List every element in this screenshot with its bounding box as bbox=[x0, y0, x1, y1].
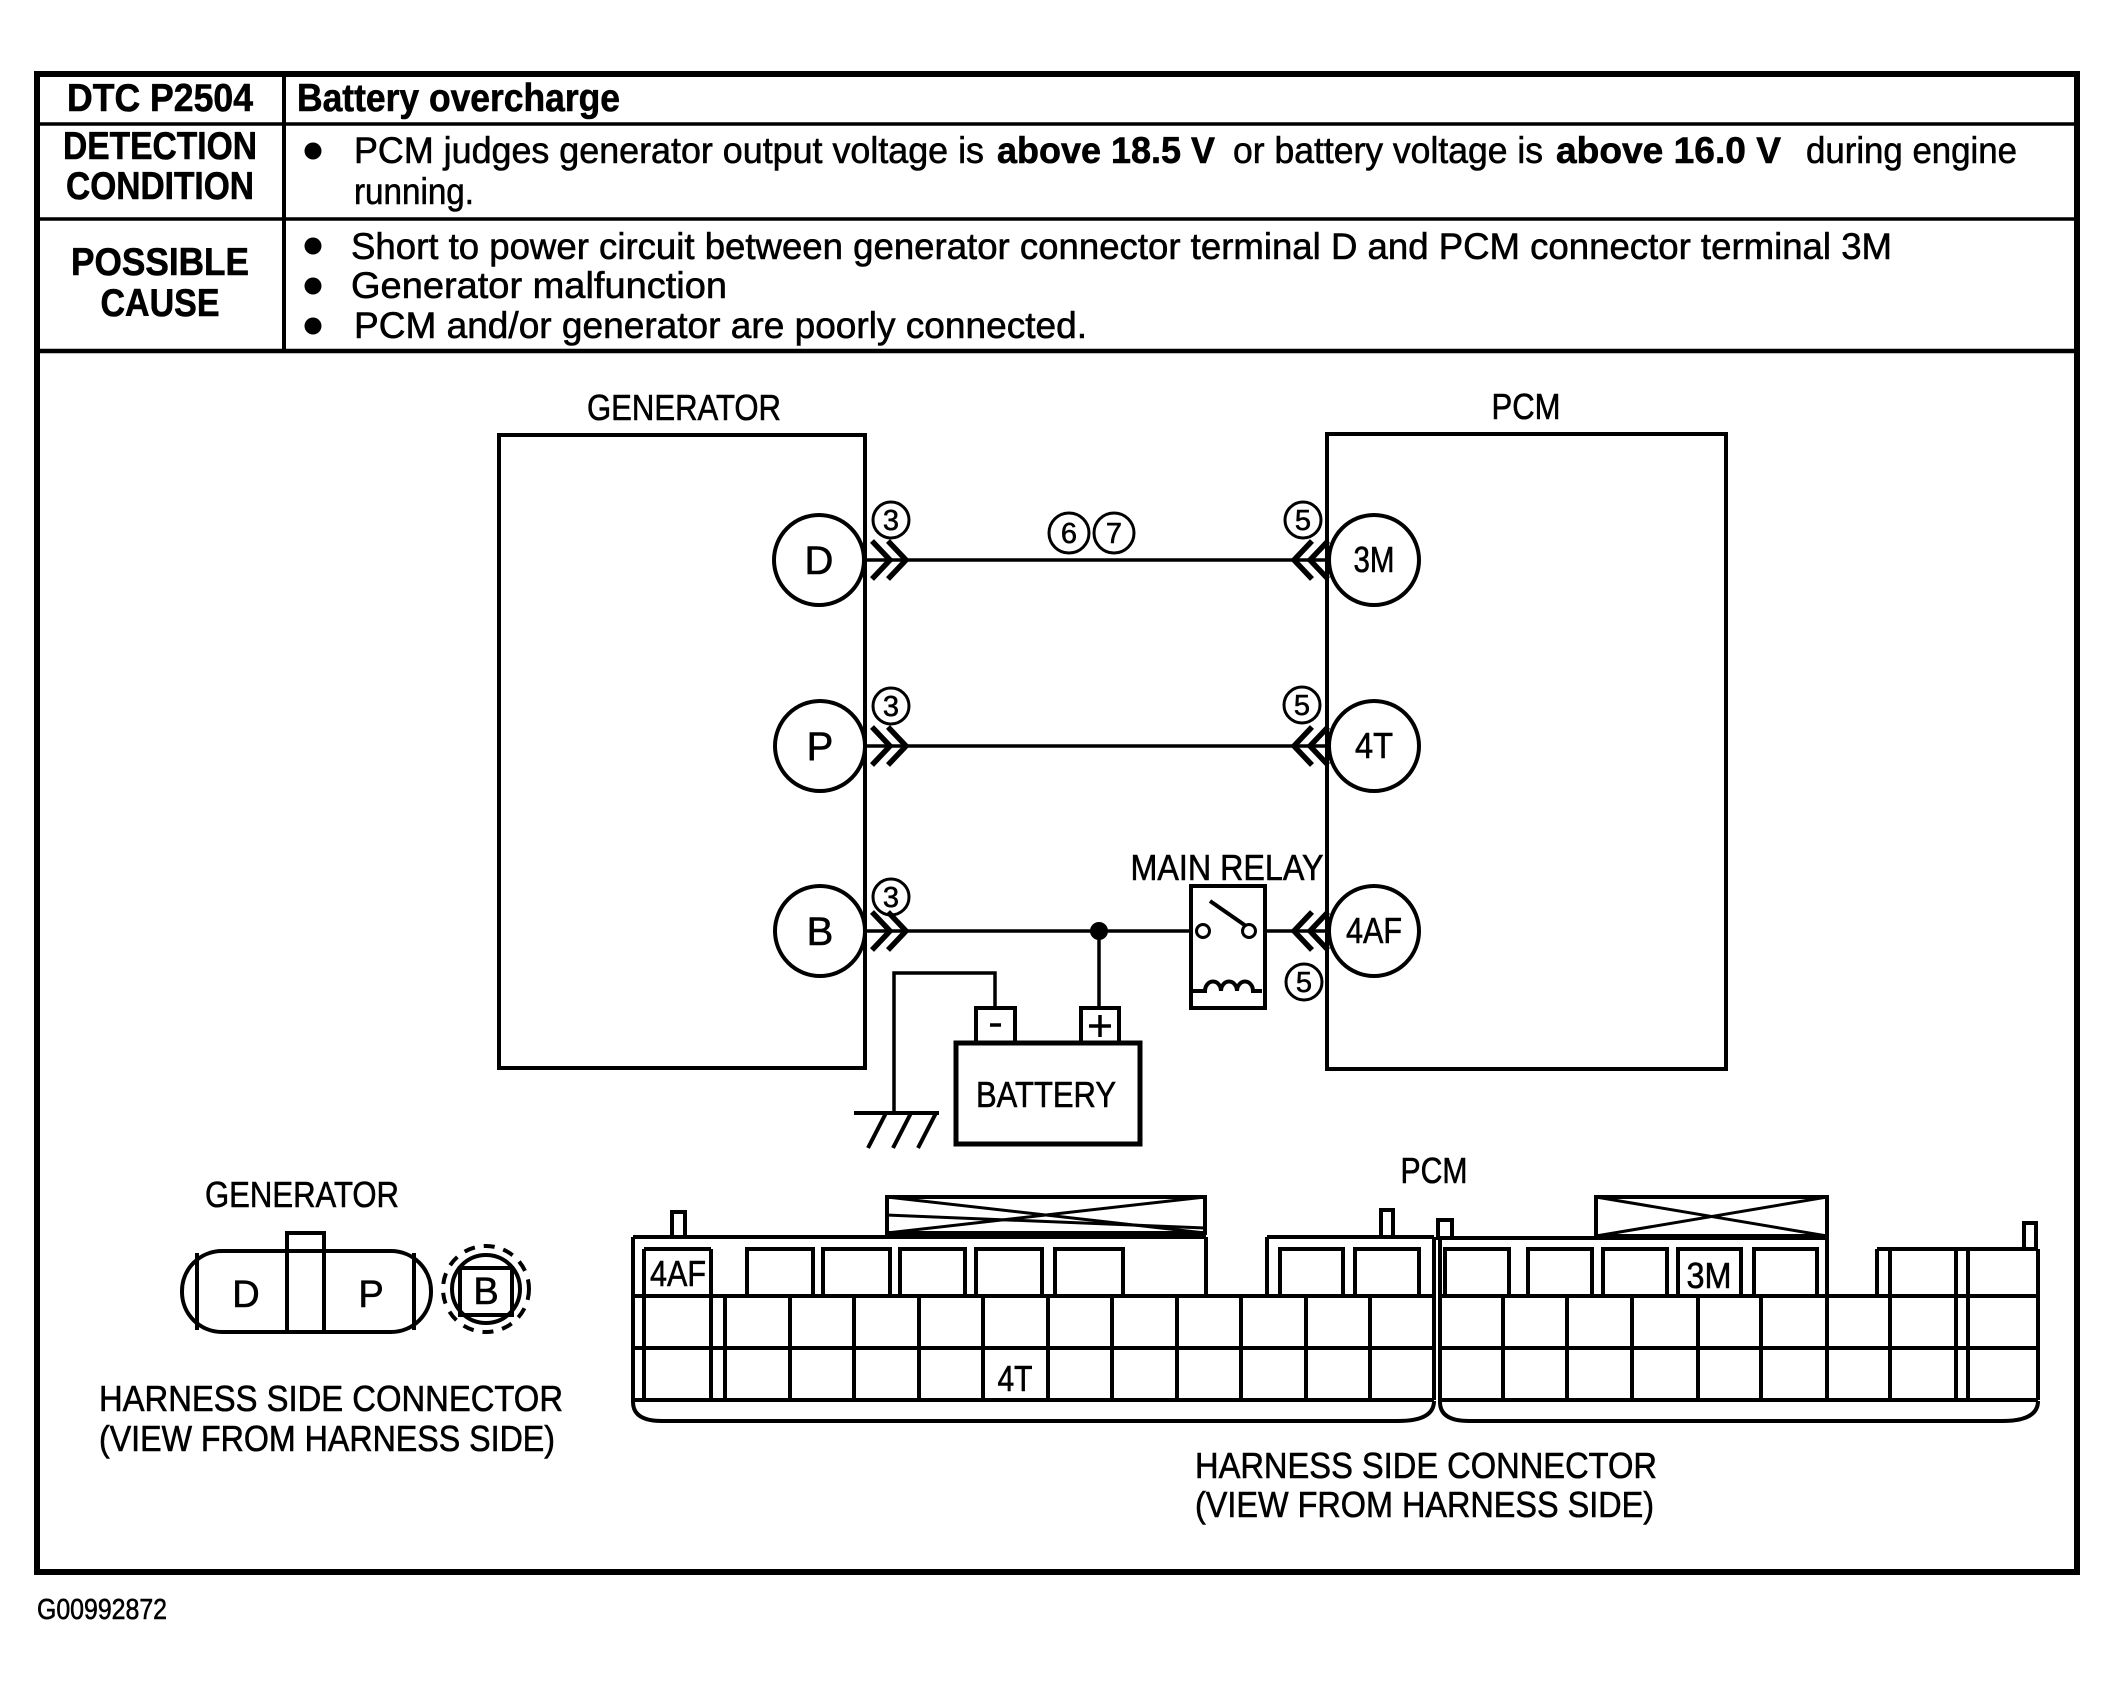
svg-text:or battery voltage is: or battery voltage is bbox=[1233, 130, 1543, 171]
connector arrow 4T side bbox=[1310, 727, 1328, 765]
svg-text:(VIEW FROM HARNESS SIDE): (VIEW FROM HARNESS SIDE) bbox=[1195, 1484, 1654, 1525]
pin number 3 bbox=[873, 688, 909, 724]
svg-text:Short to power circuit between: Short to power circuit between generator… bbox=[351, 226, 1892, 267]
PCM right half lock rib (crossed box) bbox=[1596, 1197, 1827, 1236]
PCM right half left tab bbox=[1438, 1220, 1452, 1238]
svg-text:above 16.0 V: above 16.0 V bbox=[1556, 130, 1781, 171]
svg-text:running.: running. bbox=[354, 171, 474, 212]
PCM right half bottom shell bbox=[1440, 1398, 2038, 1421]
generator connector key tab bbox=[287, 1233, 324, 1251]
svg-text:HARNESS SIDE CONNECTOR: HARNESS SIDE CONNECTOR bbox=[99, 1378, 563, 1419]
PCM connector left half outline bbox=[631, 1237, 635, 1400]
battery box bbox=[956, 1043, 1140, 1144]
svg-text:POSSIBLE: POSSIBLE bbox=[71, 241, 249, 284]
svg-text:7: 7 bbox=[1106, 518, 1122, 550]
svg-text:DETECTION: DETECTION bbox=[63, 125, 257, 168]
svg-text:P: P bbox=[807, 725, 834, 769]
svg-text:4T: 4T bbox=[1355, 725, 1393, 766]
cause bullet 2 bbox=[305, 278, 322, 295]
svg-text:PCM and/or generator are poorl: PCM and/or generator are poorly connecte… bbox=[354, 305, 1087, 346]
pin B ring connector bbox=[443, 1246, 529, 1332]
PCM left half bottom shell bbox=[633, 1398, 1434, 1421]
wire battery negative to ground bbox=[894, 973, 995, 1113]
generator terminal P bbox=[775, 701, 865, 791]
svg-text:PCM judges generator output vo: PCM judges generator output voltage is bbox=[354, 130, 984, 171]
svg-text:5: 5 bbox=[1294, 690, 1310, 722]
pin number 3 bbox=[873, 502, 909, 538]
wire relay to 4AF bbox=[1265, 929, 1329, 933]
svg-text:P: P bbox=[358, 1274, 383, 1316]
svg-text:GENERATOR: GENERATOR bbox=[587, 387, 781, 428]
svg-text:PCM: PCM bbox=[1492, 386, 1561, 427]
svg-text:above 18.5 V: above 18.5 V bbox=[997, 130, 1215, 171]
cause bullet 1 bbox=[305, 238, 322, 255]
svg-text:during engine: during engine bbox=[1806, 130, 2017, 171]
svg-text:3M: 3M bbox=[1354, 539, 1395, 580]
svg-text:CONDITION: CONDITION bbox=[66, 165, 254, 208]
detection bullet bbox=[305, 143, 322, 160]
splice number 7 bbox=[1094, 513, 1134, 553]
pin number 3 bbox=[873, 879, 909, 915]
PCM terminal 4T bbox=[1329, 701, 1419, 791]
svg-text:HARNESS SIDE CONNECTOR: HARNESS SIDE CONNECTOR bbox=[1195, 1445, 1657, 1486]
wire B to main relay bbox=[866, 929, 1191, 933]
generator terminal D bbox=[774, 515, 864, 605]
svg-text:MAIN RELAY: MAIN RELAY bbox=[1131, 847, 1324, 888]
relay coil bbox=[1193, 982, 1262, 992]
svg-text:6: 6 bbox=[1061, 518, 1077, 550]
table row line 3 bbox=[37, 349, 2077, 354]
svg-text:4T: 4T bbox=[998, 1358, 1033, 1399]
cause bullet 3 bbox=[305, 318, 322, 335]
wire D to 3M bbox=[866, 558, 1329, 562]
PCM left half mounting tab 2 bbox=[1381, 1210, 1393, 1237]
generator harness connector body bbox=[182, 1251, 431, 1332]
ground symbol bbox=[854, 1111, 939, 1115]
connector arrow P side bbox=[872, 727, 890, 765]
table row line 1 bbox=[37, 122, 2077, 126]
svg-text:CAUSE: CAUSE bbox=[101, 282, 220, 325]
svg-text:DTC P2504: DTC P2504 bbox=[67, 77, 253, 120]
svg-text:GENERATOR: GENERATOR bbox=[205, 1174, 399, 1215]
PCM terminal 4AF bbox=[1329, 886, 1419, 976]
PCM left half mounting tab 1 bbox=[672, 1212, 685, 1237]
svg-text:3: 3 bbox=[883, 691, 899, 723]
connector arrow 4AF side bbox=[1310, 912, 1328, 950]
svg-text:5: 5 bbox=[1295, 505, 1311, 537]
PCM box bbox=[1327, 434, 1726, 1069]
pin number 5 bbox=[1285, 502, 1321, 538]
connector arrow 3M side bbox=[1310, 541, 1328, 579]
svg-text:3M: 3M bbox=[1687, 1255, 1732, 1296]
generator terminal B bbox=[775, 886, 865, 976]
svg-text:D: D bbox=[232, 1274, 259, 1316]
svg-text:B: B bbox=[473, 1271, 498, 1313]
PCM right half grid bbox=[1440, 1294, 2038, 1298]
svg-text:Generator malfunction: Generator malfunction bbox=[351, 265, 727, 306]
svg-text:Battery overcharge: Battery overcharge bbox=[297, 77, 620, 120]
connector arrow B side bbox=[872, 912, 890, 950]
wire P to 4T bbox=[866, 744, 1329, 748]
svg-text:3: 3 bbox=[883, 882, 899, 914]
relay contact right bbox=[1243, 925, 1256, 938]
relay switch blade bbox=[1210, 901, 1246, 926]
relay contact left bbox=[1197, 925, 1210, 938]
PCM left half top row pin boxes bbox=[747, 1249, 813, 1296]
PCM right half right tab bbox=[2024, 1223, 2036, 1249]
PCM terminal 3M bbox=[1329, 515, 1419, 605]
PCM left half lock rib (crossed box) bbox=[887, 1197, 1205, 1233]
pin number 5 bbox=[1284, 687, 1320, 723]
battery positive terminal bbox=[1081, 1008, 1119, 1043]
svg-text:BATTERY: BATTERY bbox=[976, 1074, 1116, 1115]
PCM left half grid bbox=[633, 1294, 1434, 1298]
svg-text:PCM: PCM bbox=[1401, 1150, 1468, 1191]
svg-text:B: B bbox=[807, 910, 834, 954]
connector arrow D side bbox=[872, 541, 890, 579]
svg-text:3: 3 bbox=[883, 505, 899, 537]
generator box bbox=[499, 435, 865, 1068]
svg-text:(VIEW FROM HARNESS SIDE): (VIEW FROM HARNESS SIDE) bbox=[99, 1418, 555, 1459]
junction dot battery feed bbox=[1090, 922, 1108, 940]
svg-text:4AF: 4AF bbox=[650, 1253, 706, 1294]
table row line 2 bbox=[37, 217, 2077, 221]
PCM connector right half outline bbox=[1438, 1238, 1442, 1400]
main relay box bbox=[1191, 886, 1265, 1008]
svg-text:G00992872: G00992872 bbox=[37, 1594, 167, 1626]
splice number 6 bbox=[1049, 513, 1089, 553]
svg-text:D: D bbox=[805, 539, 834, 583]
svg-text:4AF: 4AF bbox=[1346, 910, 1402, 951]
pin number 5 bbox=[1286, 964, 1322, 1000]
wire junction to battery positive bbox=[1097, 931, 1101, 1010]
svg-text:5: 5 bbox=[1296, 967, 1312, 999]
battery negative terminal bbox=[976, 1008, 1015, 1043]
PCM right half top row pin boxes bbox=[1445, 1249, 1509, 1296]
table column divider bbox=[282, 74, 286, 351]
